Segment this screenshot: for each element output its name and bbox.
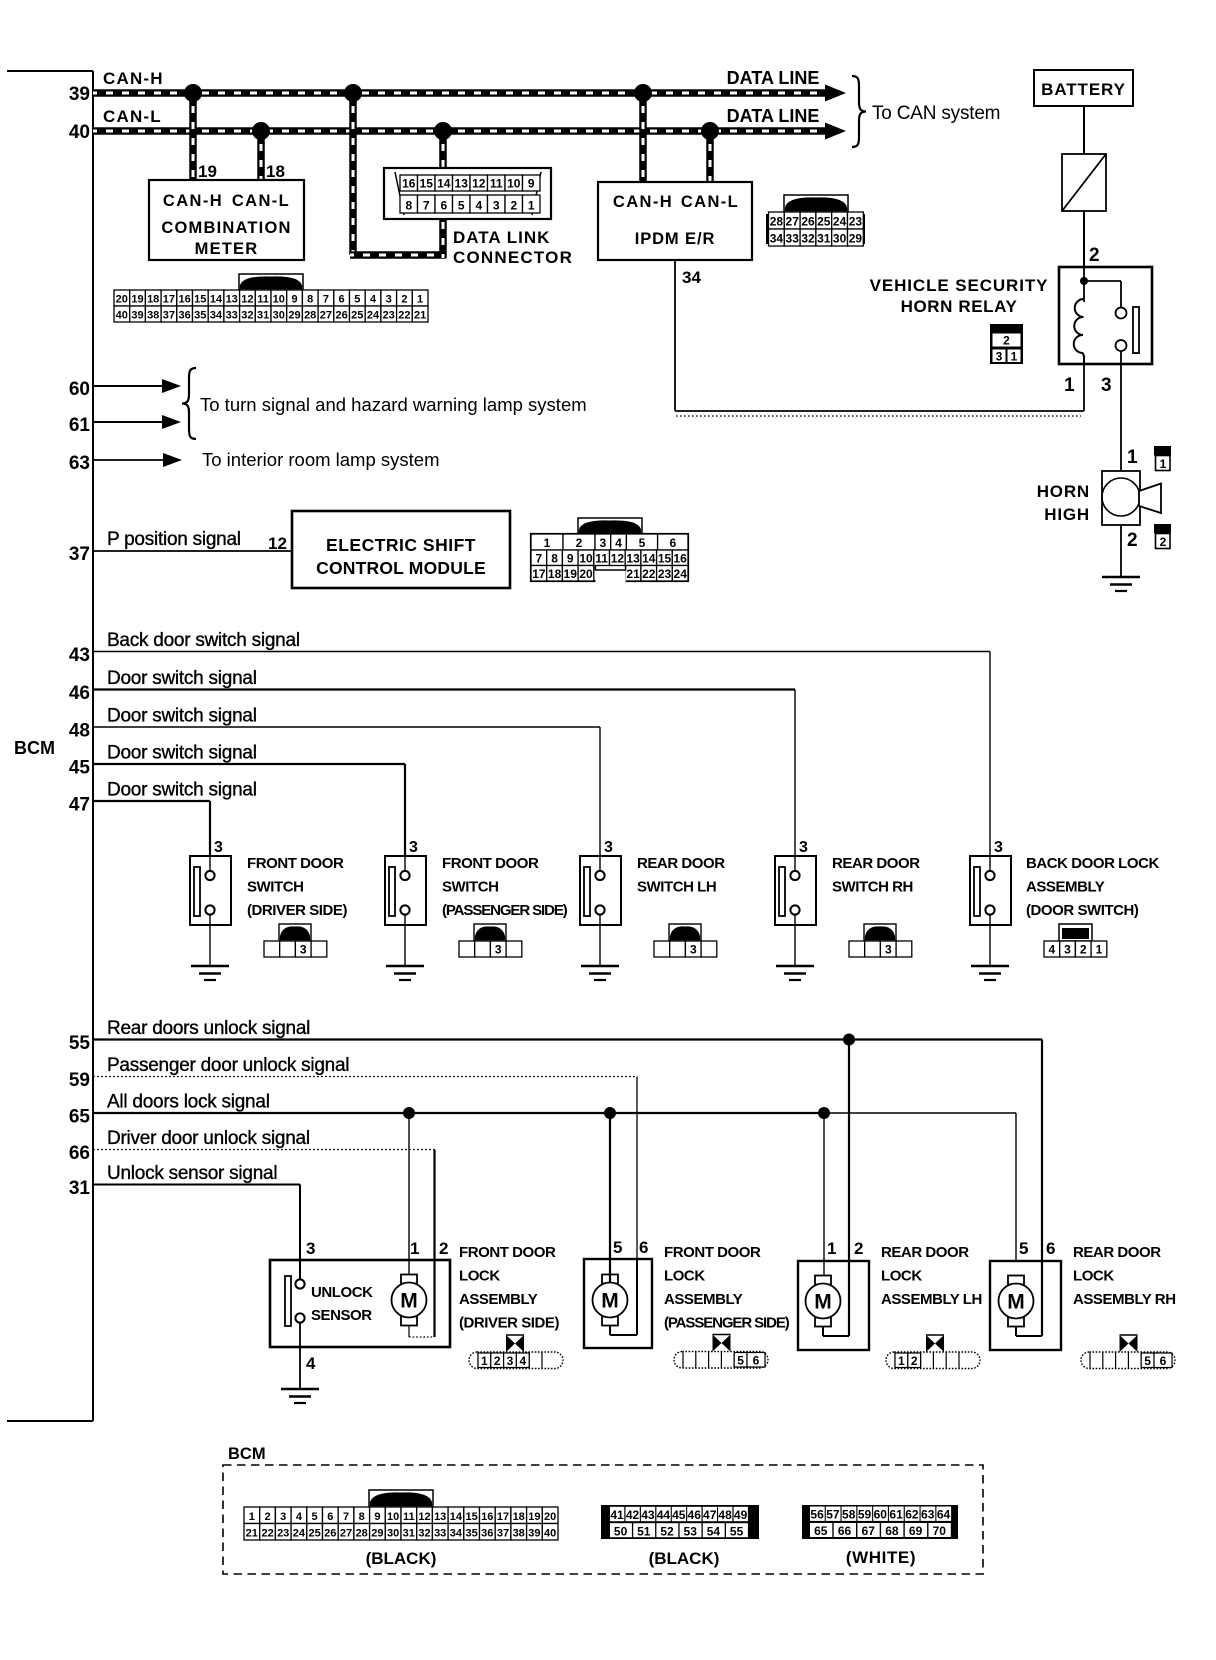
wire switch to ground (599, 915, 601, 967)
svg-text:3: 3 (507, 1354, 514, 1368)
fuse (1062, 154, 1106, 211)
rear door lock assembly RH box (990, 1261, 1061, 1350)
svg-text:56: 56 (810, 1508, 824, 1522)
ground horn (1102, 576, 1140, 579)
svg-text:39: 39 (528, 1528, 540, 1540)
svg-text:3: 3 (994, 839, 1003, 856)
svg-text:55: 55 (730, 1525, 744, 1539)
svg-text:Passenger door unlock signal: Passenger door unlock signal (107, 1055, 349, 1076)
svg-text:34: 34 (450, 1528, 463, 1540)
svg-text:24: 24 (367, 310, 380, 322)
svg-text:5: 5 (312, 1511, 318, 1523)
svg-text:REAR DOOR: REAR DOOR (1073, 1244, 1161, 1261)
wire drop CAN-L to IPDM (706, 131, 714, 182)
svg-text:20: 20 (116, 294, 128, 306)
wire 59 dotted (93, 1076, 637, 1078)
IPDM E/R box (598, 182, 752, 260)
svg-text:16: 16 (178, 294, 190, 306)
svg-text:34: 34 (770, 232, 784, 246)
wire drop CAN-L to combination meter pin 18 (257, 131, 265, 180)
svg-text:(WHITE): (WHITE) (846, 1548, 916, 1567)
svg-text:3: 3 (495, 943, 502, 957)
svg-text:(DRIVER SIDE): (DRIVER SIDE) (247, 902, 347, 919)
wire 37 (93, 550, 292, 552)
svg-text:DATA LINE: DATA LINE (727, 68, 820, 88)
motor M rear RH (1008, 1276, 1024, 1285)
svg-text:31: 31 (817, 232, 831, 246)
svg-text:26: 26 (801, 215, 815, 229)
svg-text:(BLACK): (BLACK) (649, 1549, 720, 1568)
svg-text:57: 57 (826, 1508, 840, 1522)
svg-text:1: 1 (481, 1354, 488, 1368)
svg-text:37: 37 (69, 544, 90, 565)
svg-text:36: 36 (481, 1528, 493, 1540)
svg-text:1: 1 (410, 1239, 419, 1258)
svg-text:2: 2 (494, 1354, 501, 1368)
svg-text:61: 61 (889, 1508, 903, 1522)
wire 55 to rear LH lock pin 2 (848, 1040, 850, 1262)
svg-text:M: M (400, 1290, 418, 1313)
wire relay pin 3 to horn (1120, 351, 1122, 471)
svg-text:27: 27 (320, 310, 332, 322)
svg-text:7: 7 (343, 1511, 349, 1523)
connector icon rear LH lock (886, 1352, 980, 1369)
svg-text:15: 15 (465, 1511, 477, 1523)
svg-text:LOCK: LOCK (664, 1268, 705, 1285)
svg-text:24: 24 (293, 1528, 306, 1540)
svg-text:63: 63 (69, 453, 90, 474)
svg-text:M: M (814, 1291, 832, 1314)
svg-text:35: 35 (194, 310, 206, 322)
svg-text:54: 54 (707, 1525, 721, 1539)
svg-text:64: 64 (937, 1508, 951, 1522)
svg-text:23: 23 (658, 567, 672, 581)
svg-text:23: 23 (849, 215, 863, 229)
svg-text:44: 44 (657, 1508, 671, 1522)
svg-text:3: 3 (1064, 943, 1071, 957)
motor M rear LH (815, 1276, 831, 1285)
svg-text:4: 4 (370, 294, 377, 306)
svg-text:CAN-H: CAN-H (103, 69, 164, 88)
wire CAN-H bus (93, 89, 826, 97)
svg-text:2: 2 (576, 536, 583, 550)
svg-text:38: 38 (513, 1528, 525, 1540)
svg-text:53: 53 (684, 1525, 698, 1539)
svg-text:32: 32 (418, 1528, 430, 1540)
junction on CAN-L at IPDM (701, 122, 719, 140)
svg-text:ASSEMBLY: ASSEMBLY (1026, 879, 1105, 896)
svg-text:14: 14 (642, 552, 656, 566)
svg-text:41: 41 (610, 1508, 624, 1522)
arrow CAN-H data line (825, 85, 846, 102)
svg-text:18: 18 (266, 162, 285, 181)
svg-text:CONNECTOR: CONNECTOR (453, 248, 573, 267)
svg-text:2: 2 (1127, 530, 1138, 551)
svg-text:27: 27 (340, 1528, 352, 1540)
wire into switch pin (989, 856, 991, 871)
svg-text:45: 45 (672, 1508, 686, 1522)
ground (581, 965, 619, 968)
connector icon back door switch (1059, 924, 1092, 941)
svg-text:5: 5 (458, 199, 465, 213)
svg-text:COMBINATION: COMBINATION (161, 219, 291, 237)
wire switch to ground (989, 915, 991, 967)
BCM connector 1-40 grid (244, 1507, 260, 1524)
svg-text:3: 3 (214, 839, 223, 856)
svg-text:HORN: HORN (1037, 482, 1090, 501)
svg-text:SENSOR: SENSOR (311, 1307, 372, 1324)
svg-text:23: 23 (277, 1528, 289, 1540)
svg-text:CAN-H: CAN-H (163, 192, 223, 210)
svg-text:65: 65 (69, 1107, 91, 1128)
svg-text:10: 10 (579, 552, 593, 566)
svg-text:UNLOCK: UNLOCK (311, 1284, 373, 1301)
svg-text:58: 58 (842, 1508, 856, 1522)
svg-text:15: 15 (658, 552, 672, 566)
svg-text:31: 31 (403, 1528, 415, 1540)
svg-text:M: M (1007, 1291, 1025, 1314)
svg-text:33: 33 (226, 310, 238, 322)
svg-text:3: 3 (280, 1511, 286, 1523)
svg-text:36: 36 (178, 310, 190, 322)
svg-text:1: 1 (1127, 447, 1138, 468)
svg-text:CAN-L: CAN-L (681, 193, 739, 211)
svg-text:10: 10 (507, 177, 521, 191)
svg-text:Door switch signal: Door switch signal (107, 668, 257, 689)
svg-text:37: 37 (497, 1528, 509, 1540)
svg-text:65: 65 (814, 1524, 828, 1538)
svg-text:39: 39 (131, 310, 143, 322)
svg-text:19: 19 (564, 567, 578, 581)
svg-text:17: 17 (532, 567, 546, 581)
svg-text:26: 26 (324, 1528, 336, 1540)
connector icon rear RH lock (1081, 1352, 1175, 1369)
ESCM connector grid (531, 534, 688, 581)
combination meter connector bump (239, 274, 303, 290)
svg-text:46: 46 (688, 1508, 702, 1522)
svg-text:1: 1 (1064, 375, 1075, 396)
svg-text:19: 19 (198, 162, 217, 181)
wire 65 to driver lock pin 1 (408, 1113, 410, 1275)
svg-text:METER: METER (195, 240, 259, 258)
svg-text:34: 34 (210, 310, 223, 322)
svg-text:52: 52 (660, 1525, 674, 1539)
svg-text:17: 17 (163, 294, 175, 306)
svg-text:12: 12 (611, 552, 625, 566)
svg-text:4: 4 (519, 1354, 526, 1368)
svg-text:1: 1 (898, 1354, 905, 1368)
svg-text:66: 66 (69, 1143, 90, 1164)
wire battery to fuse (1083, 106, 1085, 154)
svg-text:5: 5 (1144, 1354, 1151, 1368)
svg-text:12: 12 (472, 177, 486, 191)
svg-text:30: 30 (273, 310, 285, 322)
wire 43 (93, 651, 990, 653)
svg-text:9: 9 (567, 552, 574, 566)
svg-text:Driver door unlock signal: Driver door unlock signal (107, 1128, 310, 1149)
svg-text:21: 21 (246, 1528, 258, 1540)
svg-text:2: 2 (1089, 245, 1100, 266)
svg-text:HIGH: HIGH (1044, 505, 1090, 524)
svg-text:29: 29 (371, 1528, 383, 1540)
svg-text:21: 21 (626, 567, 640, 581)
wire drop CAN-H to IPDM (639, 93, 647, 182)
relay contact circles (1116, 308, 1127, 319)
svg-text:8: 8 (405, 199, 412, 213)
svg-text:43: 43 (69, 645, 90, 666)
svg-text:8: 8 (307, 294, 313, 306)
wire CAN-L drop to DLC pin 14 (439, 131, 447, 168)
junction on CAN-L at data link connector (434, 122, 452, 140)
svg-text:67: 67 (862, 1524, 876, 1538)
svg-text:32: 32 (801, 232, 815, 246)
svg-text:37: 37 (163, 310, 175, 322)
combination meter box (149, 180, 304, 260)
svg-text:30: 30 (387, 1528, 399, 1540)
data link connector bevel left (395, 172, 404, 215)
svg-text:62: 62 (905, 1508, 919, 1522)
electric shift control module box (292, 511, 510, 588)
svg-text:47: 47 (703, 1508, 717, 1522)
svg-text:1: 1 (1011, 350, 1018, 364)
svg-text:DATA LINE: DATA LINE (727, 106, 820, 126)
svg-text:22: 22 (398, 310, 410, 322)
rear door lock assembly LH box (798, 1261, 869, 1350)
connector icon passenger switch (474, 924, 506, 941)
svg-text:16: 16 (402, 177, 416, 191)
svg-text:BCM: BCM (14, 738, 55, 758)
svg-text:25: 25 (308, 1528, 320, 1540)
svg-text:4: 4 (1048, 943, 1055, 957)
wire switch to ground (209, 915, 211, 967)
svg-text:FRONT DOOR: FRONT DOOR (442, 855, 539, 872)
svg-text:BCM: BCM (228, 1445, 266, 1463)
svg-text:(PASSENGER SIDE): (PASSENGER SIDE) (664, 1315, 790, 1332)
brace turn signal (182, 368, 196, 439)
relay internal junction (1083, 267, 1085, 302)
junction on CAN-H at data link connector (344, 84, 362, 102)
relay contact bar (1133, 307, 1139, 353)
brace to CAN system (852, 76, 866, 147)
svg-text:39: 39 (69, 84, 90, 105)
svg-text:3: 3 (799, 839, 808, 856)
wire fuse to relay pin 2 (1083, 211, 1085, 267)
svg-text:14: 14 (450, 1511, 463, 1523)
data link connector box (384, 168, 551, 219)
BCM connector 1-40 bump (369, 1490, 433, 1507)
svg-text:43: 43 (641, 1508, 655, 1522)
wire 47 (93, 800, 210, 802)
wire LH pin 2 internal (848, 1261, 850, 1336)
svg-text:5: 5 (613, 1238, 622, 1257)
svg-text:47: 47 (69, 795, 90, 816)
junction on CAN-H at combination meter (184, 84, 202, 102)
svg-text:23: 23 (383, 310, 395, 322)
svg-text:9: 9 (291, 294, 297, 306)
svg-text:FRONT DOOR: FRONT DOOR (247, 855, 344, 872)
BCM connector 41-55 (601, 1505, 759, 1539)
connector icon passenger lock (674, 1352, 768, 1369)
svg-text:P position signal: P position signal (107, 529, 241, 550)
svg-text:CAN-H: CAN-H (613, 193, 673, 211)
svg-text:BACK DOOR LOCK: BACK DOOR LOCK (1026, 855, 1159, 872)
svg-text:68: 68 (885, 1524, 899, 1538)
data link connector grid top row (400, 175, 418, 191)
relay coil (1074, 299, 1084, 364)
BCM dashed box (223, 1465, 983, 1574)
svg-text:40: 40 (116, 310, 128, 322)
svg-text:3: 3 (690, 943, 697, 957)
svg-text:8: 8 (359, 1511, 365, 1523)
svg-text:4: 4 (306, 1354, 316, 1373)
svg-text:35: 35 (465, 1528, 477, 1540)
wire into switch pin (794, 856, 796, 871)
ground (386, 965, 424, 968)
svg-text:SWITCH: SWITCH (442, 879, 498, 896)
svg-text:60: 60 (874, 1508, 888, 1522)
svg-text:HORN RELAY: HORN RELAY (901, 297, 1018, 316)
svg-text:3: 3 (493, 199, 500, 213)
ESCM connector bump (578, 518, 642, 534)
IPDM connector grid (766, 214, 772, 244)
svg-text:ELECTRIC SHIFT: ELECTRIC SHIFT (326, 535, 476, 555)
wire 46 (93, 688, 795, 690)
wire 63 (93, 459, 164, 461)
ground (776, 965, 814, 968)
svg-text:14: 14 (437, 177, 451, 191)
wire 65 to passenger lock pin 5 (609, 1113, 611, 1282)
data link connector bevel right (532, 172, 541, 215)
svg-text:2: 2 (510, 199, 517, 213)
connector icon rear RH switch (864, 924, 896, 941)
svg-text:(PASSENGER SIDE): (PASSENGER SIDE) (442, 902, 568, 919)
svg-text:(DRIVER SIDE): (DRIVER SIDE) (459, 1315, 559, 1332)
combination meter connector grid (114, 290, 130, 306)
svg-text:7: 7 (423, 199, 430, 213)
svg-text:16: 16 (673, 552, 687, 566)
svg-text:REAR DOOR: REAR DOOR (832, 855, 920, 872)
svg-text:1: 1 (528, 199, 535, 213)
svg-text:11: 11 (595, 552, 608, 566)
svg-text:22: 22 (642, 567, 656, 581)
svg-text:51: 51 (637, 1525, 651, 1539)
unlock sensor element (285, 1276, 291, 1326)
svg-text:2: 2 (854, 1239, 863, 1258)
svg-text:2: 2 (911, 1354, 918, 1368)
svg-text:13: 13 (626, 552, 640, 566)
svg-text:11: 11 (490, 177, 503, 191)
motor M driver (401, 1275, 417, 1284)
wire 65 to rear LH lock pin 1 (823, 1113, 825, 1276)
svg-text:24: 24 (833, 215, 847, 229)
svg-text:3: 3 (604, 839, 613, 856)
svg-text:SWITCH LH: SWITCH LH (637, 879, 716, 896)
connector icon driver lock (469, 1352, 563, 1369)
svg-text:Door switch signal: Door switch signal (107, 780, 257, 801)
svg-text:7: 7 (536, 552, 543, 566)
svg-text:25: 25 (817, 215, 831, 229)
horn high symbol (1102, 478, 1140, 516)
svg-text:3: 3 (1101, 375, 1112, 396)
wire 60 (93, 385, 163, 387)
svg-text:2: 2 (439, 1239, 448, 1258)
horn connector icon 2 (1154, 524, 1171, 534)
wire motor bottom to pin 2 dotted (408, 1326, 410, 1337)
svg-text:2: 2 (1003, 334, 1010, 348)
door switch body (580, 856, 621, 925)
svg-text:66: 66 (838, 1524, 852, 1538)
svg-text:31: 31 (257, 310, 269, 322)
svg-text:15: 15 (194, 294, 206, 306)
svg-text:Rear doors unlock signal: Rear doors unlock signal (107, 1018, 310, 1039)
svg-text:DATA LINK: DATA LINK (453, 228, 550, 247)
svg-text:59: 59 (69, 1070, 90, 1091)
svg-text:28: 28 (770, 215, 784, 229)
svg-text:45: 45 (69, 758, 91, 779)
svg-text:(BLACK): (BLACK) (366, 1549, 437, 1568)
wire 31 (93, 1184, 300, 1186)
svg-text:6: 6 (440, 199, 447, 213)
svg-text:4: 4 (296, 1511, 303, 1523)
svg-text:30: 30 (833, 232, 847, 246)
svg-text:48: 48 (69, 721, 90, 742)
svg-text:REAR DOOR: REAR DOOR (637, 855, 725, 872)
wire 61 (93, 421, 163, 423)
svg-text:61: 61 (69, 415, 91, 436)
svg-text:48: 48 (718, 1508, 732, 1522)
svg-text:70: 70 (933, 1524, 947, 1538)
door switch body (190, 856, 231, 925)
svg-text:9: 9 (528, 177, 535, 191)
svg-text:11: 11 (403, 1511, 415, 1523)
svg-text:3: 3 (386, 294, 392, 306)
battery (1034, 70, 1133, 106)
svg-text:1: 1 (249, 1511, 255, 1523)
svg-text:60: 60 (69, 379, 90, 400)
svg-text:14: 14 (210, 294, 223, 306)
svg-text:LOCK: LOCK (459, 1268, 500, 1285)
svg-text:13: 13 (226, 294, 238, 306)
door switch body (970, 856, 1011, 925)
svg-text:1: 1 (417, 294, 423, 306)
svg-text:40: 40 (544, 1528, 556, 1540)
svg-text:CAN-L: CAN-L (232, 192, 290, 210)
svg-text:16: 16 (481, 1511, 493, 1523)
svg-text:4: 4 (475, 199, 482, 213)
door switch body (775, 856, 816, 925)
svg-text:Door switch signal: Door switch signal (107, 706, 257, 727)
svg-text:18: 18 (548, 567, 562, 581)
wire switch to ground (404, 915, 406, 967)
svg-text:20: 20 (544, 1511, 556, 1523)
wire 45 (93, 763, 405, 765)
svg-text:32: 32 (241, 310, 253, 322)
wire CAN-H loop to DLC pin 6 (349, 93, 357, 255)
svg-text:8: 8 (551, 552, 558, 566)
horn connector icon 1 (1154, 446, 1171, 456)
svg-text:33: 33 (786, 232, 800, 246)
wire switch to ground (794, 915, 796, 967)
svg-text:29: 29 (288, 310, 300, 322)
svg-text:25: 25 (351, 310, 363, 322)
wire into switch pin (599, 856, 601, 871)
svg-text:3: 3 (600, 536, 607, 550)
svg-text:17: 17 (497, 1511, 509, 1523)
wire 48 (93, 726, 600, 728)
svg-text:6: 6 (339, 294, 345, 306)
svg-text:LOCK: LOCK (1073, 1268, 1114, 1285)
IPDM connector bump (784, 195, 848, 212)
